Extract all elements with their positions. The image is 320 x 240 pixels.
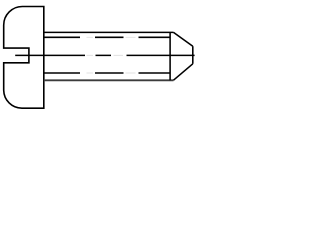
thread-end vertical [169, 32, 171, 80]
shaft top edge [44, 31, 174, 33]
center line (dashes) [15, 54, 194, 56]
faint residue dashes in hidden-line gaps [87, 36, 136, 38]
technical line drawing: slotted pan-head screw, side view [0, 0, 200, 114]
tip top chamfer [174, 32, 193, 46]
screw head outline with driver slot notch [4, 7, 44, 109]
hidden thread line bottom (dashes) [45, 72, 171, 74]
shaft bottom edge [44, 79, 174, 81]
tip bottom chamfer [174, 64, 193, 80]
tip end flat [192, 46, 194, 64]
hidden thread line top (dashes) [45, 36, 171, 38]
